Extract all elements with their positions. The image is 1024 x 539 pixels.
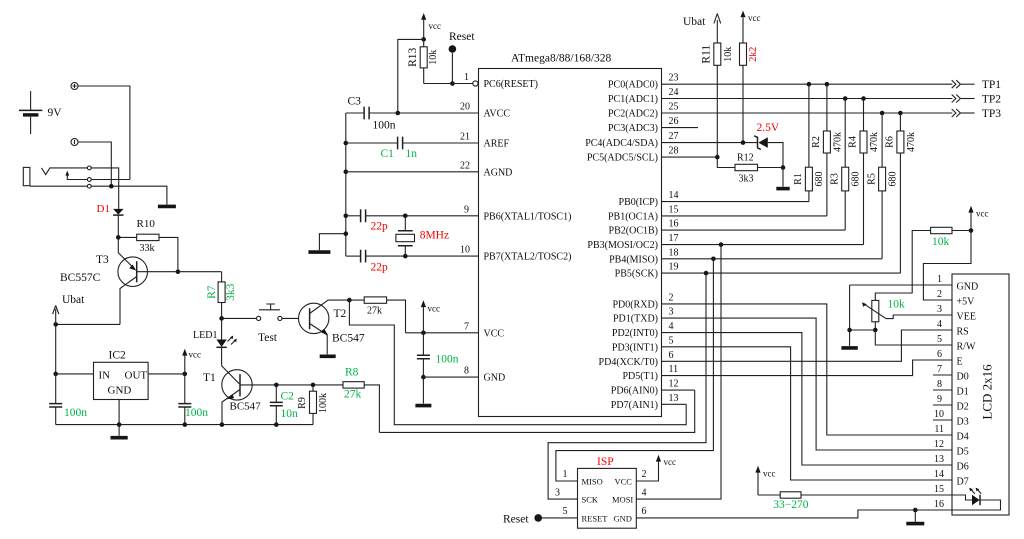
svg-text:22p: 22p bbox=[371, 262, 389, 274]
vcc arrow (pin7) bbox=[421, 300, 440, 333]
svg-text:GND: GND bbox=[614, 514, 632, 524]
wire TP1 line (PC0) bbox=[662, 83, 953, 85]
resistor R2 470k bbox=[811, 84, 843, 216]
svg-text:PB3(MOSI/OC2): PB3(MOSI/OC2) bbox=[587, 240, 658, 251]
svg-text:VEE: VEE bbox=[957, 312, 976, 323]
vcc arrow (LCD contrast) bbox=[968, 206, 988, 231]
svg-text:LCD 2x16: LCD 2x16 bbox=[979, 364, 994, 420]
svg-text:T3: T3 bbox=[96, 254, 109, 266]
jack connector J1 bbox=[23, 166, 130, 188]
node TP1/R2 bbox=[825, 82, 830, 87]
svg-text:vcc: vcc bbox=[428, 304, 441, 314]
ISP pin numbers bbox=[555, 469, 647, 517]
crystal Q1 8MHz bbox=[396, 216, 449, 256]
svg-text:GND: GND bbox=[957, 282, 979, 293]
node rail/T1 emitter bbox=[220, 422, 225, 427]
resistor R6 470k bbox=[885, 113, 917, 273]
svg-text:100n: 100n bbox=[64, 407, 87, 419]
node GND pin8 bbox=[421, 375, 426, 380]
resistor R5 680 bbox=[866, 113, 898, 259]
svg-text:Test: Test bbox=[258, 332, 278, 344]
svg-text:15: 15 bbox=[669, 204, 679, 215]
wire pin27 line bbox=[662, 142, 758, 144]
svg-text:PC4(ADC4/SDA): PC4(ADC4/SDA) bbox=[585, 138, 658, 149]
node Ubat bbox=[53, 322, 58, 327]
svg-text:PB7(XTAL2/TOSC2): PB7(XTAL2/TOSC2) bbox=[484, 252, 572, 263]
transistor T3 BC557C bbox=[60, 253, 222, 325]
svg-text:8MHz: 8MHz bbox=[420, 230, 449, 242]
capacitor C1 1n bbox=[346, 137, 479, 160]
svg-text:20: 20 bbox=[460, 102, 470, 113]
capacitor 22p (XTAL1) bbox=[346, 209, 479, 232]
svg-text:6: 6 bbox=[642, 506, 647, 517]
svg-text:AVCC: AVCC bbox=[484, 109, 511, 120]
svg-text:27k: 27k bbox=[367, 306, 382, 317]
capacitor 22p (XTAL2) bbox=[346, 250, 479, 274]
svg-text:LED1: LED1 bbox=[193, 330, 217, 341]
wire LCD GND (pin1) bbox=[850, 284, 952, 286]
wire TP2 line (PC1) bbox=[662, 98, 953, 100]
svg-text:24: 24 bbox=[669, 87, 679, 98]
svg-text:TP1: TP1 bbox=[982, 79, 1001, 91]
svg-text:10k: 10k bbox=[932, 236, 950, 248]
svg-text:GND: GND bbox=[484, 373, 506, 384]
svg-text:BC547: BC547 bbox=[230, 401, 262, 413]
svg-text:PB6(XTAL1/TOSC1): PB6(XTAL1/TOSC1) bbox=[484, 211, 572, 222]
svg-text:26: 26 bbox=[669, 116, 679, 127]
svg-text:7: 7 bbox=[464, 321, 469, 332]
svg-text:22p: 22p bbox=[371, 221, 389, 233]
diode D1 bbox=[97, 203, 124, 215]
svg-text:3: 3 bbox=[555, 488, 560, 499]
ground (MCU) bbox=[415, 404, 431, 408]
node R10/T3 base bbox=[176, 269, 181, 274]
resistor R4 470k bbox=[848, 99, 880, 245]
svg-text:1: 1 bbox=[937, 274, 942, 285]
svg-text:10k: 10k bbox=[723, 47, 734, 62]
svg-text:Reset: Reset bbox=[449, 31, 475, 43]
svg-text:D1: D1 bbox=[957, 387, 969, 398]
wire PD2 to LCD D6 bbox=[662, 333, 953, 465]
svg-text:MOSI: MOSI bbox=[612, 495, 633, 505]
svg-text:R12: R12 bbox=[737, 153, 754, 164]
svg-text:R10: R10 bbox=[137, 218, 156, 230]
resistor R7 3k3 bbox=[206, 272, 237, 319]
svg-text:100n: 100n bbox=[436, 354, 459, 366]
svg-text:6: 6 bbox=[669, 350, 674, 361]
svg-text:14: 14 bbox=[669, 190, 679, 201]
wire ground rail (left) bbox=[56, 424, 314, 426]
node AVCC/R13 bbox=[396, 111, 401, 116]
svg-text:470k: 470k bbox=[869, 132, 880, 152]
svg-text:4: 4 bbox=[642, 488, 647, 499]
svg-text:SCK: SCK bbox=[582, 495, 599, 505]
node reset/pin1 bbox=[450, 81, 455, 86]
wire T3 collector to Ubat node bbox=[56, 323, 120, 325]
svg-text:VCC: VCC bbox=[484, 328, 505, 339]
wire pin19 line (PB5/SCK) bbox=[662, 272, 901, 274]
resistor R13 10k bbox=[407, 39, 439, 83]
vcc arrow (ISP) bbox=[656, 455, 676, 467]
svg-text:11: 11 bbox=[669, 364, 679, 375]
node pin19/ISP SCK bbox=[704, 271, 709, 276]
svg-text:Ubat: Ubat bbox=[683, 16, 706, 28]
LCD pin stubs bbox=[933, 375, 952, 420]
node TP2/R3 bbox=[843, 96, 848, 101]
ground (T2 emitter) bbox=[320, 354, 336, 358]
svg-text:9: 9 bbox=[464, 204, 469, 215]
svg-text:PB5(SCK): PB5(SCK) bbox=[615, 269, 658, 280]
svg-text:100n: 100n bbox=[185, 407, 208, 419]
MCU right pin labels bbox=[585, 80, 658, 411]
svg-text:2: 2 bbox=[642, 469, 647, 480]
svg-text:R1: R1 bbox=[793, 173, 804, 185]
svg-text:TP3: TP3 bbox=[982, 108, 1001, 120]
MCU left pin numbers bbox=[460, 72, 470, 377]
node TP1/R1 bbox=[807, 82, 812, 87]
zener diode 2.5V bbox=[754, 122, 783, 168]
svg-text:RS: RS bbox=[957, 327, 969, 338]
wire PD1 to LCD D5 bbox=[662, 318, 953, 450]
svg-text:PB0(ICP): PB0(ICP) bbox=[619, 197, 658, 208]
TP3 chevrons bbox=[952, 109, 961, 117]
svg-text:C1: C1 bbox=[381, 148, 395, 160]
wire rail to ground bbox=[849, 330, 851, 346]
wire ISP SCK (pin3) to PB5 bbox=[548, 273, 706, 499]
wire AGND line bbox=[346, 171, 479, 173]
wire PC3 stub (pin26) bbox=[662, 127, 699, 129]
svg-text:R4: R4 bbox=[848, 136, 859, 148]
capacitor C3 100n bbox=[346, 96, 479, 132]
transistor T2 BC547 bbox=[299, 300, 365, 354]
svg-text:4: 4 bbox=[937, 319, 942, 330]
wire TP2 stub bbox=[961, 98, 975, 100]
wire R13 node to AVCC bbox=[398, 39, 424, 113]
node pot gnd rail left bbox=[847, 328, 852, 333]
svg-text:VCC: VCC bbox=[615, 477, 633, 487]
wire T1 collector line bbox=[276, 384, 343, 386]
svg-text:vcc: vcc bbox=[429, 21, 442, 31]
pin1 inversion circle bbox=[473, 81, 478, 86]
wire PD3 to LCD D7 bbox=[662, 347, 953, 480]
wire R8 to PD6 (outer loop) bbox=[379, 390, 694, 432]
svg-text:9V: 9V bbox=[48, 107, 63, 119]
node IC2 OUT / vcc bbox=[183, 372, 188, 377]
svg-text:D7: D7 bbox=[957, 477, 969, 488]
node rail/XTAL1 bbox=[344, 214, 349, 219]
node TP3/R6 bbox=[898, 111, 903, 116]
svg-text:PD0(RXD): PD0(RXD) bbox=[612, 299, 658, 310]
svg-text:PC6(RESET): PC6(RESET) bbox=[484, 79, 538, 90]
svg-text:R5: R5 bbox=[866, 173, 877, 185]
svg-text:2: 2 bbox=[937, 289, 942, 300]
svg-text:10: 10 bbox=[460, 245, 470, 256]
svg-text:PB4(MISO): PB4(MISO) bbox=[609, 254, 658, 265]
svg-text:17: 17 bbox=[669, 233, 679, 244]
node LCD pin16/ground bbox=[913, 508, 918, 513]
wire GND pin8 line bbox=[423, 376, 478, 378]
Reset terminal (ISP) bbox=[534, 514, 542, 522]
svg-text:RESET: RESET bbox=[582, 514, 609, 524]
node pin27/2k2 bbox=[741, 140, 746, 145]
ground (LCD contrast) bbox=[841, 346, 857, 350]
ground (jack) bbox=[158, 205, 176, 209]
wire PD5 to LCD E bbox=[662, 360, 953, 376]
svg-text:4: 4 bbox=[669, 321, 674, 332]
node rail/AREF bbox=[344, 141, 349, 146]
svg-text:D0: D0 bbox=[957, 372, 969, 383]
svg-text:9: 9 bbox=[937, 394, 942, 405]
wire pin1 line bbox=[424, 83, 473, 85]
wire pot gnd rail bbox=[850, 329, 876, 331]
wire + terminal to jack middle contact bbox=[78, 86, 130, 180]
MCU left pin labels bbox=[484, 79, 572, 384]
svg-text:21: 21 bbox=[460, 132, 470, 143]
svg-text:8: 8 bbox=[464, 366, 469, 377]
svg-text:Reset: Reset bbox=[503, 514, 529, 526]
resistor R8 27k bbox=[343, 367, 379, 433]
svg-text:10k: 10k bbox=[888, 299, 906, 311]
wire TP3 stub bbox=[961, 112, 975, 114]
node R13 top bbox=[421, 37, 426, 42]
svg-text:19: 19 bbox=[669, 262, 679, 273]
ground (IC2) bbox=[111, 436, 128, 440]
svg-text:6: 6 bbox=[937, 349, 942, 360]
svg-text:ATmega8/88/168/328: ATmega8/88/168/328 bbox=[511, 53, 612, 65]
svg-text:AREF: AREF bbox=[484, 139, 510, 150]
svg-text:+5V: +5V bbox=[957, 297, 976, 308]
ground (LCD backlight) bbox=[906, 522, 924, 526]
svg-text:vcc: vcc bbox=[976, 209, 989, 219]
svg-text:D3: D3 bbox=[957, 417, 969, 428]
LCD pin labels bbox=[957, 282, 979, 488]
svg-text:10k: 10k bbox=[428, 50, 439, 65]
resistor 2k2 bbox=[740, 43, 759, 143]
svg-text:E: E bbox=[957, 357, 963, 368]
LCD module box bbox=[952, 274, 1009, 515]
node rail/100n bbox=[183, 422, 188, 427]
svg-text:28: 28 bbox=[669, 146, 679, 157]
svg-text:100k: 100k bbox=[318, 393, 329, 413]
svg-text:R9: R9 bbox=[297, 397, 308, 409]
svg-text:16: 16 bbox=[669, 219, 679, 230]
resistor R9 100k bbox=[297, 385, 329, 425]
node zener/R12 bbox=[781, 165, 786, 170]
node XTAL1/crystal bbox=[403, 214, 408, 219]
wire vcc to LCD +5V bbox=[923, 231, 971, 301]
wire pin14 line (PB0) bbox=[662, 201, 809, 203]
svg-text:680: 680 bbox=[814, 172, 825, 187]
svg-text:TP2: TP2 bbox=[982, 93, 1001, 105]
wire VCC pin7 line bbox=[406, 332, 479, 334]
wire rail to ground bbox=[319, 234, 345, 250]
svg-text:PD2(INT0): PD2(INT0) bbox=[612, 328, 658, 339]
wire LED1 to T1 base bbox=[221, 347, 223, 366]
svg-text:470k: 470k bbox=[906, 132, 917, 152]
node XTAL2/crystal bbox=[403, 254, 408, 259]
vcc arrow (IC2 out) bbox=[182, 349, 201, 374]
resistor R11 10k bbox=[701, 43, 734, 157]
wire TP1 stub bbox=[961, 83, 975, 85]
potentiometer 10k (contrast) bbox=[862, 299, 952, 331]
svg-text:R/W: R/W bbox=[957, 342, 976, 353]
svg-text:IN: IN bbox=[99, 370, 111, 382]
Ubat arrow bbox=[53, 294, 86, 324]
svg-text:470k: 470k bbox=[832, 132, 843, 152]
svg-text:PC5(ADC5/SCL): PC5(ADC5/SCL) bbox=[587, 153, 658, 164]
svg-text:R2: R2 bbox=[811, 136, 822, 148]
svg-text:2k2: 2k2 bbox=[748, 47, 759, 62]
svg-text:13: 13 bbox=[669, 393, 679, 404]
resistor 10k (LCD pull-up) bbox=[875, 227, 971, 300]
svg-text:R3: R3 bbox=[829, 173, 840, 185]
svg-text:Ubat: Ubat bbox=[62, 294, 85, 306]
ground (zener) bbox=[776, 187, 789, 191]
capacitor C2 10n bbox=[270, 385, 298, 425]
svg-text:PB1(OC1A): PB1(OC1A) bbox=[608, 211, 658, 222]
Ubat arrow (R11) bbox=[683, 14, 721, 44]
svg-text:OUT: OUT bbox=[125, 370, 148, 382]
svg-text:3k3: 3k3 bbox=[739, 174, 754, 185]
resistor 27k (T2 collector) bbox=[349, 297, 405, 333]
svg-text:PD3(INT1): PD3(INT1) bbox=[612, 342, 658, 353]
node pin17/ISP MOSI bbox=[719, 242, 724, 247]
svg-text:PC0(ADC0): PC0(ADC0) bbox=[608, 80, 658, 91]
svg-text:100n: 100n bbox=[373, 120, 396, 132]
terminal + bbox=[71, 83, 78, 90]
wire R/W to gnd rail bbox=[875, 330, 952, 345]
svg-text:680: 680 bbox=[850, 172, 861, 187]
node pin28/R11/R12 bbox=[715, 155, 720, 160]
svg-text:14: 14 bbox=[934, 469, 944, 480]
svg-text:PB2(OC1B): PB2(OC1B) bbox=[609, 226, 658, 237]
wire ISP VCC (pin2) bbox=[636, 462, 658, 482]
ISP connector bbox=[578, 456, 637, 528]
svg-text:PD4(XCK/T0): PD4(XCK/T0) bbox=[599, 357, 658, 368]
svg-text:1: 1 bbox=[563, 469, 568, 480]
wire T2 collector to PD7 (inner loop) bbox=[349, 300, 686, 425]
svg-text:16: 16 bbox=[934, 499, 944, 510]
LED LED1 bbox=[193, 318, 237, 347]
wire PD7 line bbox=[662, 403, 687, 405]
svg-text:PD1(TXD): PD1(TXD) bbox=[613, 314, 658, 325]
wire pin17 line (PB3/MOSI) bbox=[662, 244, 864, 246]
node VCC pin7 bbox=[421, 331, 426, 336]
wire ISP MOSI (pin4) to PB3 bbox=[636, 245, 721, 500]
wire D1 to T3 emitter bbox=[117, 215, 119, 253]
wire IC2 GND to ground bbox=[118, 400, 120, 436]
svg-text:PC1(ADC1): PC1(ADC1) bbox=[608, 94, 658, 105]
svg-text:D6: D6 bbox=[957, 462, 969, 473]
resistor R1 680 bbox=[793, 84, 825, 201]
svg-text:C2: C2 bbox=[281, 391, 295, 403]
wire pin16 line (PB2) bbox=[662, 229, 846, 231]
svg-text:5: 5 bbox=[937, 334, 942, 345]
svg-text:R8: R8 bbox=[345, 367, 359, 379]
wire LCD gnd column bbox=[849, 285, 851, 330]
svg-text:33k: 33k bbox=[140, 243, 155, 254]
wire pin15 line (PB1) bbox=[662, 215, 827, 217]
vcc arrow (2k2) bbox=[740, 11, 760, 44]
svg-text:2: 2 bbox=[669, 292, 674, 303]
svg-text:IC2: IC2 bbox=[109, 350, 127, 362]
wire ISP RESET (pin5) bbox=[538, 517, 577, 519]
node jack sleeve / I terminal bbox=[109, 184, 114, 189]
resistor 33-270 (backlight) bbox=[758, 492, 952, 511]
transistor T1 BC547 bbox=[203, 366, 276, 425]
resistor R12 3k3 bbox=[717, 153, 783, 185]
wire I terminal to jack sleeve bbox=[78, 142, 111, 186]
svg-text:ISP: ISP bbox=[597, 456, 614, 468]
svg-text:33−270: 33−270 bbox=[773, 499, 808, 511]
svg-text:PC2(ADC2): PC2(ADC2) bbox=[608, 109, 658, 120]
svg-text:5: 5 bbox=[669, 335, 674, 346]
svg-text:8: 8 bbox=[937, 379, 942, 390]
svg-text:PC3(ADC3): PC3(ADC3) bbox=[608, 123, 658, 134]
svg-text:2.5V: 2.5V bbox=[757, 122, 780, 134]
svg-text:AGND: AGND bbox=[484, 167, 513, 178]
resistor R3 680 bbox=[829, 99, 861, 231]
svg-text:BC557C: BC557C bbox=[60, 272, 101, 284]
svg-text:27k: 27k bbox=[344, 389, 362, 401]
node TP3/R5 bbox=[880, 111, 885, 116]
svg-text:23: 23 bbox=[669, 73, 679, 84]
svg-text:15: 15 bbox=[934, 484, 944, 495]
wire pin28 line bbox=[662, 156, 718, 158]
svg-text:3k3: 3k3 bbox=[225, 283, 237, 301]
wire Ubat node to IC2 IN bbox=[55, 324, 57, 374]
TP2 chevrons bbox=[952, 95, 961, 103]
svg-text:3: 3 bbox=[937, 304, 942, 315]
wire pin18 line (PB4/MISO) bbox=[662, 258, 883, 260]
wire ISP MISO (pin1) to PB4 bbox=[556, 259, 714, 481]
capacitor 100n (VCC decoupling) bbox=[417, 333, 459, 377]
svg-text:5: 5 bbox=[563, 506, 568, 517]
wire jack tip to D1 bbox=[91, 168, 119, 209]
node rail/ground branch bbox=[344, 231, 349, 236]
node pot bottom bbox=[873, 328, 878, 333]
node C2 bbox=[274, 383, 279, 388]
wire IC2 IN bbox=[56, 373, 94, 375]
IC2 voltage regulator bbox=[94, 350, 149, 400]
battery 9V bbox=[19, 91, 62, 134]
svg-text:D4: D4 bbox=[957, 432, 969, 443]
wire T2 collector bbox=[328, 299, 349, 301]
node IC2 IN bbox=[53, 372, 58, 377]
vcc arrow (backlight) bbox=[755, 466, 775, 495]
wire pin8 to ground bbox=[422, 377, 424, 403]
node rail/IC2 gnd bbox=[117, 422, 122, 427]
svg-text:vcc: vcc bbox=[748, 13, 761, 23]
wire TP3 line (PC2) bbox=[662, 112, 953, 114]
svg-text:7: 7 bbox=[937, 364, 942, 375]
wire jack sleeve to ground bbox=[91, 186, 167, 204]
svg-text:680: 680 bbox=[887, 172, 898, 187]
node rail/AGND bbox=[344, 170, 349, 175]
wire zener node to ground bbox=[782, 168, 784, 187]
svg-text:vcc: vcc bbox=[189, 350, 202, 360]
svg-text:1n: 1n bbox=[406, 148, 418, 160]
wire ISP GND (pin6) to LCD pin16 bbox=[636, 510, 952, 518]
svg-text:3: 3 bbox=[669, 307, 674, 318]
svg-text:T2: T2 bbox=[334, 308, 347, 320]
node R7/LED1/Test bbox=[219, 316, 224, 321]
svg-text:PD7(AIN1): PD7(AIN1) bbox=[611, 400, 658, 411]
svg-text:R11: R11 bbox=[701, 45, 713, 64]
MCU right pin numbers bbox=[669, 73, 679, 404]
svg-text:12: 12 bbox=[669, 379, 679, 390]
wire PD0 to LCD D4 bbox=[662, 304, 953, 435]
